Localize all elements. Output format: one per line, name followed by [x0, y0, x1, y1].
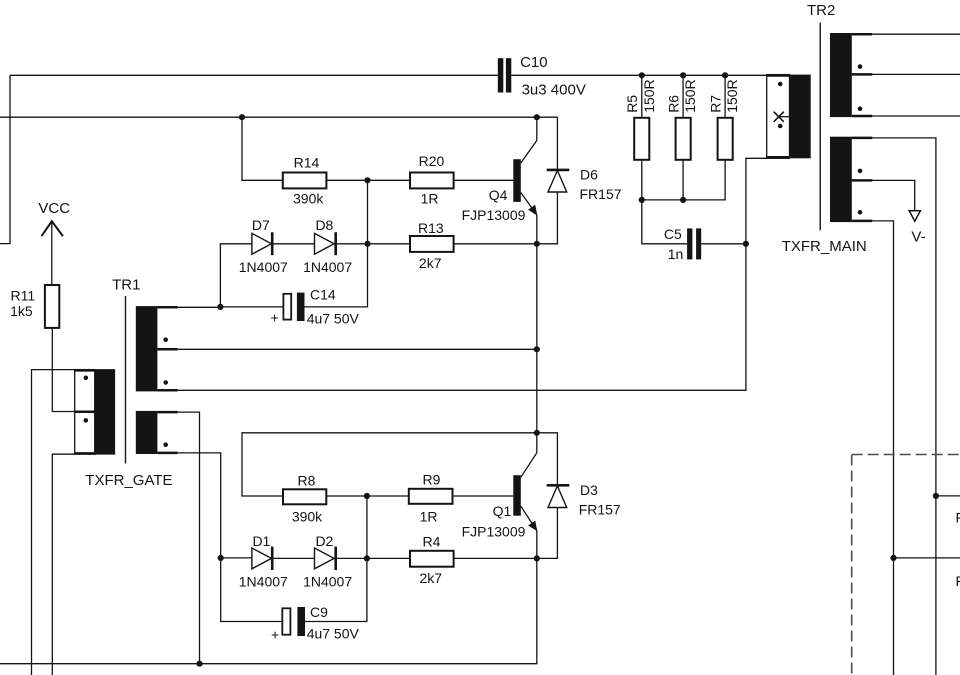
junction node C14/D7 feed: [217, 304, 223, 310]
TR1 right winding 1 (tapped): [136, 306, 178, 391]
svg-text:R13: R13: [418, 220, 444, 236]
wire R6 top lead: [682, 75, 684, 118]
wire drop from second rail to R14 row: [242, 117, 283, 180]
diode D8 1N4007: [303, 217, 352, 275]
wire TR1 left winding2 bottom lead to x=52.3 and down: [52, 454, 74, 675]
svg-text:Q4: Q4: [489, 187, 508, 203]
svg-text:1N4007: 1N4007: [303, 259, 352, 275]
svg-text:R8: R8: [298, 473, 316, 489]
svg-text:3u3 400V: 3u3 400V: [522, 81, 586, 98]
resistor R8 390k: [283, 473, 326, 525]
wire D8 cathode to R13: [336, 243, 410, 245]
wire R13 to Q4 emitter node: [454, 243, 537, 245]
junction node R5 top: [639, 72, 645, 78]
capacitor C10: [498, 54, 586, 99]
svg-text:R14: R14: [294, 155, 320, 171]
junction node R8/R9: [364, 493, 370, 499]
wire R11 bottom to TR1 left middle tap: [52, 328, 74, 412]
svg-text:150R: 150R: [641, 79, 657, 112]
wire TR1 left winding1 top lead to x=31.5 and down: [32, 370, 75, 675]
svg-text:C9: C9: [310, 604, 328, 620]
wire top rail from C10 to TXFR_MAIN primary: [511, 74, 766, 76]
svg-text:1N4007: 1N4007: [239, 574, 288, 590]
junction node R5 bottom: [639, 197, 645, 203]
wire secondary2 centre tap to V-: [852, 180, 915, 210]
wire stub from x=936 junction to right edge: [936, 495, 960, 497]
wire bottom rail: [0, 558, 537, 663]
junction node D2/R4: [364, 555, 370, 561]
wire C14 right plate up to diode junction: [303, 244, 367, 307]
wire TR1 right winding2 bottom lead right then down to D1/C9 feed: [178, 453, 221, 558]
wire R6 bottom lead: [682, 160, 684, 200]
wire left vertical from top rail corner down to left edge exit: [0, 75, 10, 243]
TXFR_MAIN secondary winding 1: [830, 33, 872, 117]
svg-text:R9: R9: [423, 472, 441, 488]
svg-text:+: +: [271, 627, 279, 643]
svg-text:2k7: 2k7: [420, 570, 443, 586]
svg-text:Q1: Q1: [493, 503, 512, 519]
junction node R6 top: [680, 72, 686, 78]
svg-text:C14: C14: [310, 287, 336, 303]
capacitor C14 4u7 50V electrolytic: [271, 287, 360, 327]
junction node Q1 emitter: [534, 555, 540, 561]
diode D1 1N4007: [239, 533, 288, 590]
wire from Q4 collector node right and down to D6 cathode: [537, 117, 558, 170]
svg-text:2k7: 2k7: [419, 255, 442, 271]
svg-text:TR2: TR2: [807, 2, 835, 19]
wire R4 to Q1 emitter node: [454, 557, 537, 559]
resistor R14 390k: [283, 155, 327, 207]
junction node Q1 collector / D3 cathode: [534, 430, 540, 436]
svg-text:4u7 50V: 4u7 50V: [307, 311, 360, 327]
wire TR1 right winding2 top lead right then down to bottom rail: [178, 412, 200, 664]
wire emitter node right and up to D6 anode: [537, 192, 558, 244]
svg-text:+: +: [271, 310, 279, 326]
svg-text:390k: 390k: [292, 509, 323, 525]
svg-text:D7: D7: [252, 217, 270, 233]
svg-text:1n: 1n: [668, 246, 684, 262]
wire D1 to D2: [272, 557, 314, 559]
svg-text:D1: D1: [252, 533, 270, 549]
resistor R20 1R: [410, 153, 454, 207]
svg-text:1N4007: 1N4007: [239, 259, 288, 275]
wire Q1 collector node right and down to D3 cathode: [537, 433, 558, 486]
wire R20 to Q4 base: [454, 179, 514, 181]
junction node D1/C9 feed: [218, 555, 224, 561]
junction node Q4 collector: [534, 114, 540, 120]
wire TR1 right winding1 middle tap to half-bridge midpoint: [178, 348, 537, 350]
svg-text:R6: R6: [666, 95, 682, 113]
junction node on x=936 vertical with right edge stub: [933, 493, 939, 499]
wire drop R14 row to diode row: [367, 180, 369, 244]
wire D3 anode down and left to Q1 emitter node: [537, 508, 558, 559]
svg-text:1R: 1R: [420, 509, 438, 525]
svg-text:VCC: VCC: [38, 200, 70, 217]
dashed enclosure box left edge: [851, 455, 853, 675]
wire top rail left from corner to C10: [10, 74, 498, 76]
capacitor C5 1n: [664, 226, 701, 262]
svg-text:C5: C5: [664, 226, 682, 242]
wire R5 R6 R7 bottom bus: [642, 160, 725, 200]
wire C9 right plate up to lower diode junction: [305, 558, 367, 621]
resistor R13 2k7: [410, 220, 454, 271]
wire drop R8 row to lower diode row: [366, 496, 368, 558]
wire secondary1 bottom lead to right edge: [872, 115, 960, 117]
TXFR_MAIN primary winding: [767, 75, 811, 159]
svg-text:C10: C10: [520, 54, 548, 71]
svg-text:D3: D3: [580, 482, 598, 498]
wire TXFR_MAIN primary bottom lead down and left to TR1: [157, 158, 766, 390]
svg-text:4u7 50V: 4u7 50V: [307, 625, 360, 641]
dashed enclosure box top edge: [852, 454, 960, 456]
wire R8 to R9: [326, 495, 409, 497]
wire Q4 emitter node down to Q1 collector node: [536, 244, 538, 433]
resistor R9 1R: [409, 472, 453, 525]
junction node on x=894 vertical with right edge stub: [890, 555, 896, 561]
wire R14 to R20: [326, 179, 410, 181]
wire secondary1 centre tap to right edge: [852, 73, 960, 75]
crossed-out tap X mark on TXFR_MAIN primary: [774, 112, 790, 122]
svg-text:1R: 1R: [421, 191, 439, 207]
wire secondary2 bottom lead right then down: [872, 221, 893, 675]
diode D7 1N4007: [239, 217, 288, 275]
junction node D8/R13: [364, 241, 370, 247]
svg-text:150R: 150R: [724, 79, 740, 112]
TR1 right winding 2: [136, 411, 178, 454]
wire R9 to Q1 base: [453, 495, 514, 497]
svg-text:FJP13009: FJP13009: [462, 523, 526, 539]
resistor R6 150R: [666, 79, 699, 159]
svg-text:FJP13009: FJP13009: [462, 207, 526, 223]
capacitor C9 4u7 50V electrolytic: [271, 604, 360, 643]
svg-text:V-: V-: [911, 229, 925, 246]
power symbol V-: [909, 211, 925, 246]
wire stub from x=894 junction to right edge: [894, 557, 960, 559]
wire R5 top lead: [641, 75, 643, 118]
wire TR1 winding2 feed to D1 anode: [221, 557, 252, 559]
svg-text:FR157: FR157: [579, 502, 621, 518]
wire R7 top lead: [724, 75, 726, 118]
svg-text:1N4007: 1N4007: [303, 574, 352, 590]
svg-text:F: F: [956, 573, 960, 589]
VCC power symbol: [38, 200, 70, 285]
junction node C5 / TXFR_MAIN primary bottom: [743, 241, 749, 247]
transistor Q4 FJP13009: [462, 117, 538, 244]
svg-text:R4: R4: [423, 533, 441, 549]
junction node R14/R20: [364, 177, 370, 183]
junction node R6 bottom: [680, 197, 686, 203]
svg-text:150R: 150R: [682, 79, 698, 112]
wire C5 right plate to primary-bottom junction: [701, 243, 746, 245]
transistor Q1 FJP13009: [462, 433, 538, 559]
svg-text:D6: D6: [580, 166, 598, 182]
wire feed down to C9 left plate: [221, 558, 283, 622]
wire junction to C14 left plate: [220, 306, 284, 308]
diode D6 FR157: [547, 166, 622, 202]
TR1 left winding pair (primary): [75, 370, 115, 455]
diode D2 1N4007: [303, 533, 352, 590]
junction node at second rail drop: [239, 114, 245, 120]
resistor R7 150R: [708, 79, 741, 159]
wire D7 to D8: [272, 243, 314, 245]
wire TR1 top tap to D7 anode and C14: [157, 244, 252, 307]
wire midpoint down-feed to R8: [242, 433, 537, 496]
resistor R4 2k7: [410, 533, 454, 586]
svg-text:TXFR_MAIN: TXFR_MAIN: [782, 238, 867, 255]
junction node midpoint tap: [534, 346, 540, 352]
svg-text:390k: 390k: [293, 191, 324, 207]
transformer TR2 TXFR_MAIN core: [819, 23, 821, 231]
TXFR_MAIN secondary winding 2: [830, 137, 872, 222]
resistor R11 1k5: [10, 285, 59, 328]
wire secondary1 top lead to right edge: [872, 33, 960, 35]
diode D3 FR157: [547, 482, 621, 518]
wire second rail y=117 from left edge to Q4 collector area: [0, 116, 537, 118]
svg-text:1k5: 1k5: [10, 303, 33, 319]
wire snubber bus down to C5 left plate: [642, 200, 687, 244]
resistor R5 150R: [624, 79, 657, 159]
wire D2 cathode to R4: [336, 557, 410, 559]
wire secondary2 top lead right then down: [872, 138, 936, 675]
svg-text:D8: D8: [315, 217, 333, 233]
svg-text:R5: R5: [624, 95, 640, 113]
svg-text:FR157: FR157: [580, 186, 622, 202]
svg-text:D2: D2: [315, 533, 333, 549]
junction node bottom rail / TR1 winding2 top lead: [196, 661, 202, 667]
svg-text:R11: R11: [11, 287, 36, 303]
junction node R7 top: [722, 72, 728, 78]
svg-text:R20: R20: [419, 153, 445, 169]
junction node Q4 emitter: [534, 241, 540, 247]
svg-text:F: F: [956, 509, 960, 525]
svg-text:R7: R7: [708, 95, 724, 113]
svg-text:TXFR_GATE: TXFR_GATE: [85, 472, 172, 489]
svg-text:TR1: TR1: [112, 277, 140, 294]
transformer TR1 TXFR_GATE core: [125, 296, 127, 464]
